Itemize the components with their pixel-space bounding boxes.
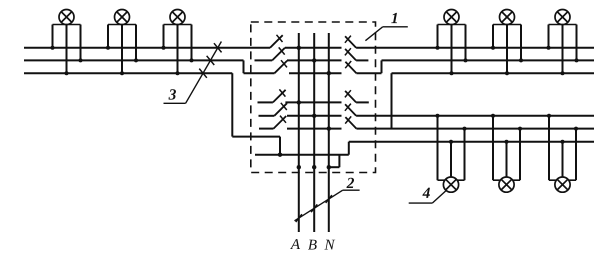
wire: row3 across risers [289,72,342,74]
wire: left phase bus 2 with step down into box [24,60,275,73]
label 2 (riser callout with core ticks) [295,175,360,222]
wire: row4 across risers [285,101,341,103]
switch Q3 blade (row2 left) [272,47,285,60]
switch Q9 blade (row5 left) [274,103,287,116]
lamp HL1 (top-left group) [51,10,83,76]
label 4 (bottom lamp group callout) [409,185,447,203]
node: row4 tap on riser A [297,100,301,104]
switch Q12 blade (row6 right) [345,116,356,128]
switch Q11 blade (row6 left) [274,116,287,129]
label 1 (switch box callout) [365,10,407,41]
node: neutral feed junction [278,153,282,157]
net label B [308,237,317,253]
wire: neutral step up to lower-right bus 3 [349,142,594,155]
riser A (phase A vertical) [298,33,300,232]
lamp HL8 (bottom-right group) [491,114,522,192]
svg-text:A: A [290,237,301,253]
switch Q4 blade (row2 right) [345,48,356,60]
switch box 1 (dashed enclosure) [251,22,376,173]
switch Q8 blade (row4 right) [345,90,356,102]
lamp HL9 (bottom-right group) [547,114,578,192]
node: riser B at box bottom [312,165,316,169]
switch Q6 blade (row3 right) [345,61,356,73]
switch Q1 blade (row1 left) [270,35,283,48]
switch Q10 blade (row5 right) [345,104,356,116]
switch Q7 blade (row4 left) [273,89,286,102]
lamp HL3 (top-left group) [162,10,194,76]
node: row2 tap on riser B [312,58,316,62]
wire: neutral line across box bottom [255,154,349,156]
riser N (neutral vertical) [328,33,330,232]
wire: row2 across risers [287,59,342,61]
wire: left neutral bus 3 routed below box [24,73,280,155]
net label A [290,237,301,253]
lamp HL5 (top-right group) [491,10,523,76]
lamp HL2 (top-left group) [106,10,138,76]
lamp HL7 (bottom-right group) [436,114,467,192]
wire: row2 left stub [255,59,273,61]
wire: row6 across risers [287,128,342,130]
lamp HL6 (top-right group) [547,10,579,76]
wire: right phase bus 1 to top-right lamps [356,47,594,49]
switch Q2 blade (row1 right) [345,36,356,48]
switch Q5 blade (row3 left) [275,60,288,73]
riser B (phase B vertical) [313,33,315,232]
svg-text:B: B [308,237,317,253]
node: row1 tap on riser A [297,46,301,50]
net label N [323,237,335,253]
label 3 (feeder line callout with core ticks) [164,42,222,104]
node: row6 tap on riser N [327,126,331,130]
wire: row5 left stub [259,115,275,117]
wire: row2 right stub [356,59,368,61]
svg-text:1: 1 [391,10,399,27]
wire: row1 across risers [285,47,342,49]
wire: row4 right stub [356,101,369,103]
node: riser A at box bottom [297,165,301,169]
node: row5 tap on riser B [312,114,316,118]
wire: row4 left stub [258,101,273,103]
wire: riser N step to neutral line [329,155,340,168]
svg-text:4: 4 [422,185,431,202]
svg-text:3: 3 [168,86,177,103]
wire: lower-right bus 2 to bottom lamps [356,128,594,130]
wire: lower-right bus 1 to bottom lamps [356,115,594,117]
wire: left phase bus 1 [24,47,270,49]
node: riser N at box bottom [327,165,331,169]
lamp HL4 (top-right group) [436,10,468,76]
svg-text:N: N [323,237,335,253]
wire: row3 out with step up to right bus 2 [356,60,594,73]
wire: row5 across risers [287,115,342,117]
wire: branch up feeding right neutral bus 3 [392,73,594,128]
svg-text:2: 2 [346,175,355,192]
node: row3 tap on riser N [327,71,331,75]
wire: row6 left stub [259,128,274,130]
